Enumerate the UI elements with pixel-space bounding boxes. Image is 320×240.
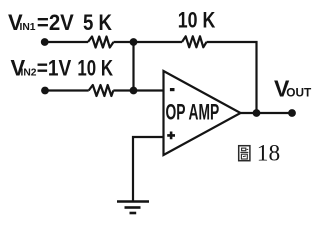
svg-text:10 K: 10 K (77, 56, 113, 81)
svg-text:IN1: IN1 (20, 22, 36, 33)
svg-text:10 K: 10 K (178, 8, 216, 33)
svg-text:OUT: OUT (286, 86, 311, 100)
svg-text:18: 18 (257, 140, 280, 165)
svg-text:OP AMP: OP AMP (166, 99, 220, 124)
svg-text:=2V: =2V (37, 10, 74, 35)
svg-text:IN2: IN2 (21, 68, 37, 79)
svg-text:=1V: =1V (37, 56, 72, 81)
svg-text:5 K: 5 K (83, 10, 112, 35)
